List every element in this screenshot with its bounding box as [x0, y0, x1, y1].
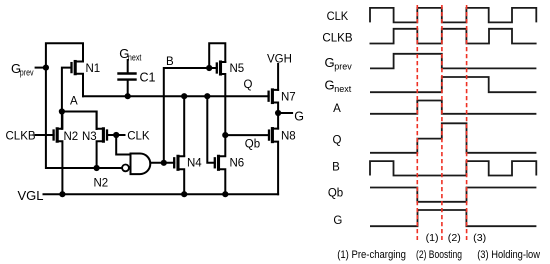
capacitor C1	[119, 60, 136, 96]
waveform B	[370, 161, 536, 175]
svg-text:(1) Pre-charging: (1) Pre-charging	[337, 249, 406, 261]
svg-text:N2: N2	[64, 131, 79, 143]
svg-text:Qb: Qb	[328, 188, 343, 200]
phase divider red dashed lines	[417, 5, 466, 240]
and-gate U1	[122, 154, 150, 175]
svg-text:prev: prev	[334, 62, 352, 72]
label N1	[86, 63, 101, 75]
waveform G	[370, 210, 536, 226]
svg-text:N2: N2	[94, 177, 109, 189]
label N2	[64, 131, 79, 143]
wire AND output to N4 gate	[150, 162, 174, 164]
node VGL-N6 junction	[222, 191, 228, 197]
svg-text:N5: N5	[230, 63, 245, 75]
transistor N1	[62, 62, 83, 112]
wire node A to N2 drain	[61, 112, 63, 129]
wire Gprev to node	[36, 67, 46, 69]
label N5	[230, 63, 245, 75]
node Q to N6 gate junction	[204, 93, 210, 99]
label Qb	[245, 138, 260, 150]
label A	[70, 96, 78, 108]
node VGL-N2 junction	[59, 191, 65, 197]
svg-text:B: B	[166, 56, 174, 68]
svg-text:N4: N4	[187, 157, 202, 169]
svg-text:(1): (1)	[426, 232, 439, 244]
label CLK	[127, 130, 150, 142]
svg-text:G: G	[294, 110, 304, 124]
svg-text:CLK: CLK	[327, 11, 349, 23]
wire CLKB to N2 gate	[35, 134, 53, 136]
svg-text:CLK: CLK	[127, 130, 150, 142]
divider line 1	[416, 5, 418, 240]
svg-text:N6: N6	[230, 157, 245, 169]
label N8	[281, 131, 296, 143]
node CLK junction	[113, 132, 119, 138]
wire CLK down to AND gate input	[116, 135, 130, 155]
svg-text:VGH: VGH	[267, 54, 292, 66]
svg-text:Q: Q	[333, 135, 342, 147]
label VGL	[18, 188, 44, 203]
label C1	[140, 70, 156, 84]
waveform Q	[370, 123, 536, 153]
wire node Q main line	[83, 95, 269, 97]
label Gprev	[11, 61, 34, 78]
wire VGL rail	[44, 193, 279, 195]
timing diagram	[370, 8, 537, 226]
node A	[59, 108, 65, 114]
node C1-Q junction	[125, 93, 131, 99]
svg-text:(3) Holding-low: (3) Holding-low	[477, 249, 541, 261]
label N4	[187, 157, 202, 169]
wire Qb to N8 gate	[225, 134, 269, 136]
wire Gprev up over to N1 drain	[46, 43, 83, 67]
svg-text:G: G	[325, 78, 335, 93]
divider line 3	[466, 5, 468, 240]
label B	[166, 56, 174, 68]
wire Q down to N6 gate	[207, 96, 215, 163]
wire Q down to N4 drain	[183, 96, 185, 156]
svg-text:N8: N8	[281, 131, 296, 143]
waveform A	[370, 101, 536, 114]
svg-text:Q: Q	[244, 79, 253, 91]
wire node A to N3 drain	[62, 112, 97, 130]
svg-text:B: B	[332, 161, 340, 173]
label Q	[244, 79, 253, 91]
node net-N2 junction	[94, 165, 100, 171]
waveform CLKB	[370, 29, 537, 44]
node G	[275, 110, 281, 116]
label VGH	[267, 54, 292, 66]
wire VGH to N7 drain	[277, 64, 279, 90]
label G	[294, 110, 304, 124]
svg-text:next: next	[334, 84, 352, 94]
transistor N7	[269, 90, 279, 113]
svg-text:N7: N7	[281, 92, 296, 104]
waveform Gprev	[370, 54, 536, 69]
transistor N5	[217, 62, 226, 135]
svg-text:CLKB: CLKB	[6, 130, 36, 142]
svg-text:G: G	[333, 215, 342, 227]
wire node B riser	[164, 68, 217, 163]
waveform Gnext	[370, 77, 536, 92]
waveform Qb	[370, 188, 536, 202]
svg-text:N1: N1	[86, 63, 101, 75]
wire net N2 from Gprev down to inverted gate input	[46, 68, 122, 168]
svg-text:A: A	[333, 103, 341, 115]
svg-text:(2) Boosting: (2) Boosting	[416, 249, 462, 261]
svg-text:next: next	[128, 52, 142, 62]
svg-text:A: A	[70, 96, 78, 108]
divider line 2	[441, 5, 443, 240]
node VGL-N4 junction	[181, 191, 187, 197]
wire G stub	[278, 112, 292, 114]
transistor N4	[174, 156, 184, 194]
label Gnext	[119, 46, 142, 63]
transistor N8	[269, 129, 278, 195]
timing labels	[322, 11, 540, 261]
transistor N6	[215, 135, 226, 194]
svg-text:prev: prev	[20, 68, 34, 78]
node Gprev junction	[43, 65, 49, 71]
waveform CLK	[370, 8, 536, 23]
node Qb junction	[222, 132, 228, 138]
node Q to N4 drain junction	[181, 93, 187, 99]
svg-text:CLKB: CLKB	[322, 32, 353, 44]
transistor N2	[54, 112, 63, 195]
wire N5 diode loop	[209, 43, 225, 68]
node B junction	[161, 160, 167, 166]
svg-text:C1: C1	[140, 70, 156, 84]
label net N2	[94, 177, 109, 189]
label N3	[82, 131, 97, 143]
svg-text:G: G	[325, 55, 335, 70]
svg-text:Qb: Qb	[245, 138, 260, 150]
wire G to N8 drain	[277, 113, 279, 129]
label CLKB	[6, 130, 36, 142]
svg-text:(2): (2)	[448, 232, 461, 244]
label Gprev row	[325, 55, 353, 72]
node N5 gate junction on B	[206, 65, 212, 71]
svg-text:(3): (3)	[473, 232, 486, 244]
label Gnext row	[325, 78, 352, 95]
svg-text:VGL: VGL	[18, 188, 44, 203]
label N6	[230, 157, 245, 169]
svg-text:N3: N3	[82, 131, 97, 143]
label N7	[281, 92, 296, 104]
transistor N3	[97, 112, 125, 169]
